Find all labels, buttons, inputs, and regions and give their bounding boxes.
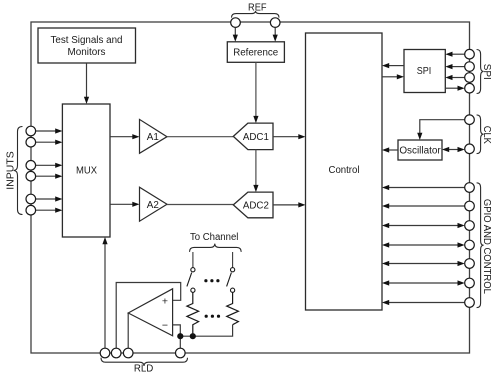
svg-text:CLK: CLK [481,126,492,144]
ellipsis dots between resistors [205,315,208,318]
wire RLD3 to opamp output [127,313,129,348]
pin circle GPIO7 [465,298,475,308]
svg-text:Control: Control [329,165,360,176]
pin circle REFP [231,18,241,28]
wire A2 to ADC2 [167,204,233,206]
pin circle GPIO5 [465,259,475,269]
svg-text:RLD: RLD [134,364,154,375]
svg-text:GPIO AND CONTROL: GPIO AND CONTROL [481,199,492,294]
wire GPIO row7 [389,302,465,304]
svg-text:−: − [162,320,168,332]
wire ADC2 to Control [273,204,299,206]
pin circle GPIO1 [465,183,475,193]
adc ADC2 [233,192,273,218]
wire SPI pin3 [452,77,465,79]
adc ADC1 [233,123,273,150]
block Control [306,33,383,310]
chip outer border [31,22,470,353]
resistor R2 [227,292,239,324]
wire MUX to A1 [110,136,133,138]
svg-text:SPI: SPI [481,64,492,80]
wire Reference to ADC1 [255,62,257,116]
wire input 1 [35,130,56,132]
wire RLD1 to MUX [104,244,106,349]
resistor R1 [187,292,199,336]
pin circle GPIO6 [465,278,475,288]
pin circle RLD2 [111,348,121,358]
wire GPIO row3 [389,225,459,227]
block Test Signals and Monitors [38,28,136,63]
wire junction to RLD4 [179,336,181,348]
brace to-channel [190,244,242,252]
switch S2 [232,252,234,268]
wire GPIO row6 [389,282,459,284]
pin circle REFN [270,18,280,28]
svg-text:Reference: Reference [233,47,279,58]
brace inputs [14,127,23,215]
svg-text:ADC2: ADC2 [243,201,269,212]
pin circle input 4 [26,171,36,181]
block Oscillator [398,140,442,160]
wire GPIO row2 [389,205,465,207]
wire Oscillator to CLK pin2 [449,149,459,151]
wire opamp minus to junction [173,325,181,336]
svg-text:Test Signals and: Test Signals and [51,35,123,46]
brace gpio [477,183,484,308]
wire SPI pin2 [452,66,465,68]
wire SPI to Control [389,65,405,67]
svg-text:Monitors: Monitors [68,47,106,58]
pin circle RLD4 [176,348,186,358]
wire GPIO row5 [389,263,459,265]
pin circle GPIO2 [465,201,475,211]
pin circle RLD3 [123,348,133,358]
block SPI [404,50,445,93]
brace rld [101,358,188,366]
wire Control to SPI [382,76,398,78]
wire REFP to Reference [234,27,236,35]
wire REFN to Reference [274,27,276,35]
pin circle CLK2 [465,144,475,154]
wire input 5 [35,198,56,200]
wire GPIO row1 [389,187,465,189]
svg-text:SPI: SPI [417,66,432,77]
wire input 4 [35,175,56,177]
wire CLK pin to Oscillator [420,120,465,134]
wire GPIO row4 [389,244,459,246]
block MUX [62,104,110,237]
pin circle SPI4 [465,83,475,93]
wire ADC1 to Control [273,136,299,138]
brace clk [477,115,484,154]
pin circle input 6 [26,205,36,215]
pin circle RLD1 [100,348,110,358]
wire ADC1 to ADC2 [255,150,257,186]
wire A1 to ADC1 [167,136,233,138]
pin circle SPI2 [465,62,475,72]
wire RLD2 to opamp plus [116,283,181,349]
wire input 3 [35,164,56,166]
op-amp RLD amplifier [128,289,172,336]
pin circle CLK1 [465,115,475,125]
wire SPI pin1 [452,53,465,55]
junction node B [190,333,196,339]
svg-text:MUX: MUX [76,165,97,176]
switch S1 [192,252,194,268]
pin circle GPIO3 [465,221,475,231]
wire Test Signals to MUX [86,63,88,98]
svg-text:To Channel: To Channel [190,232,239,243]
svg-text:Oscillator: Oscillator [399,146,441,157]
pin circle input 5 [26,194,36,204]
svg-text:A1: A1 [147,132,160,143]
svg-text:+: + [162,296,168,308]
ellipsis dots between switches [204,279,207,282]
amplifier A2 [140,187,168,221]
svg-text:A2: A2 [147,200,159,211]
brace ref [232,11,280,18]
pin circle input 1 [26,126,36,136]
wire MUX to A2 [110,203,133,205]
brace spi [477,50,484,94]
svg-text:ADC1: ADC1 [243,132,269,143]
pin circle input 3 [26,161,36,171]
block Reference [227,42,284,63]
pin circle SPI1 [465,49,475,59]
wire RLD feedback bus [180,325,232,337]
pin circle SPI3 [465,73,475,83]
junction node A [177,333,183,339]
pin circle input 2 [26,137,36,147]
wire input 2 [35,141,56,143]
wire Oscillator to Control [389,149,399,151]
amplifier A1 [140,119,168,153]
wire input 6 [35,209,56,211]
pin circle GPIO4 [465,240,475,250]
wire SPI pin4 out [445,87,458,89]
svg-text:REF: REF [248,2,267,13]
